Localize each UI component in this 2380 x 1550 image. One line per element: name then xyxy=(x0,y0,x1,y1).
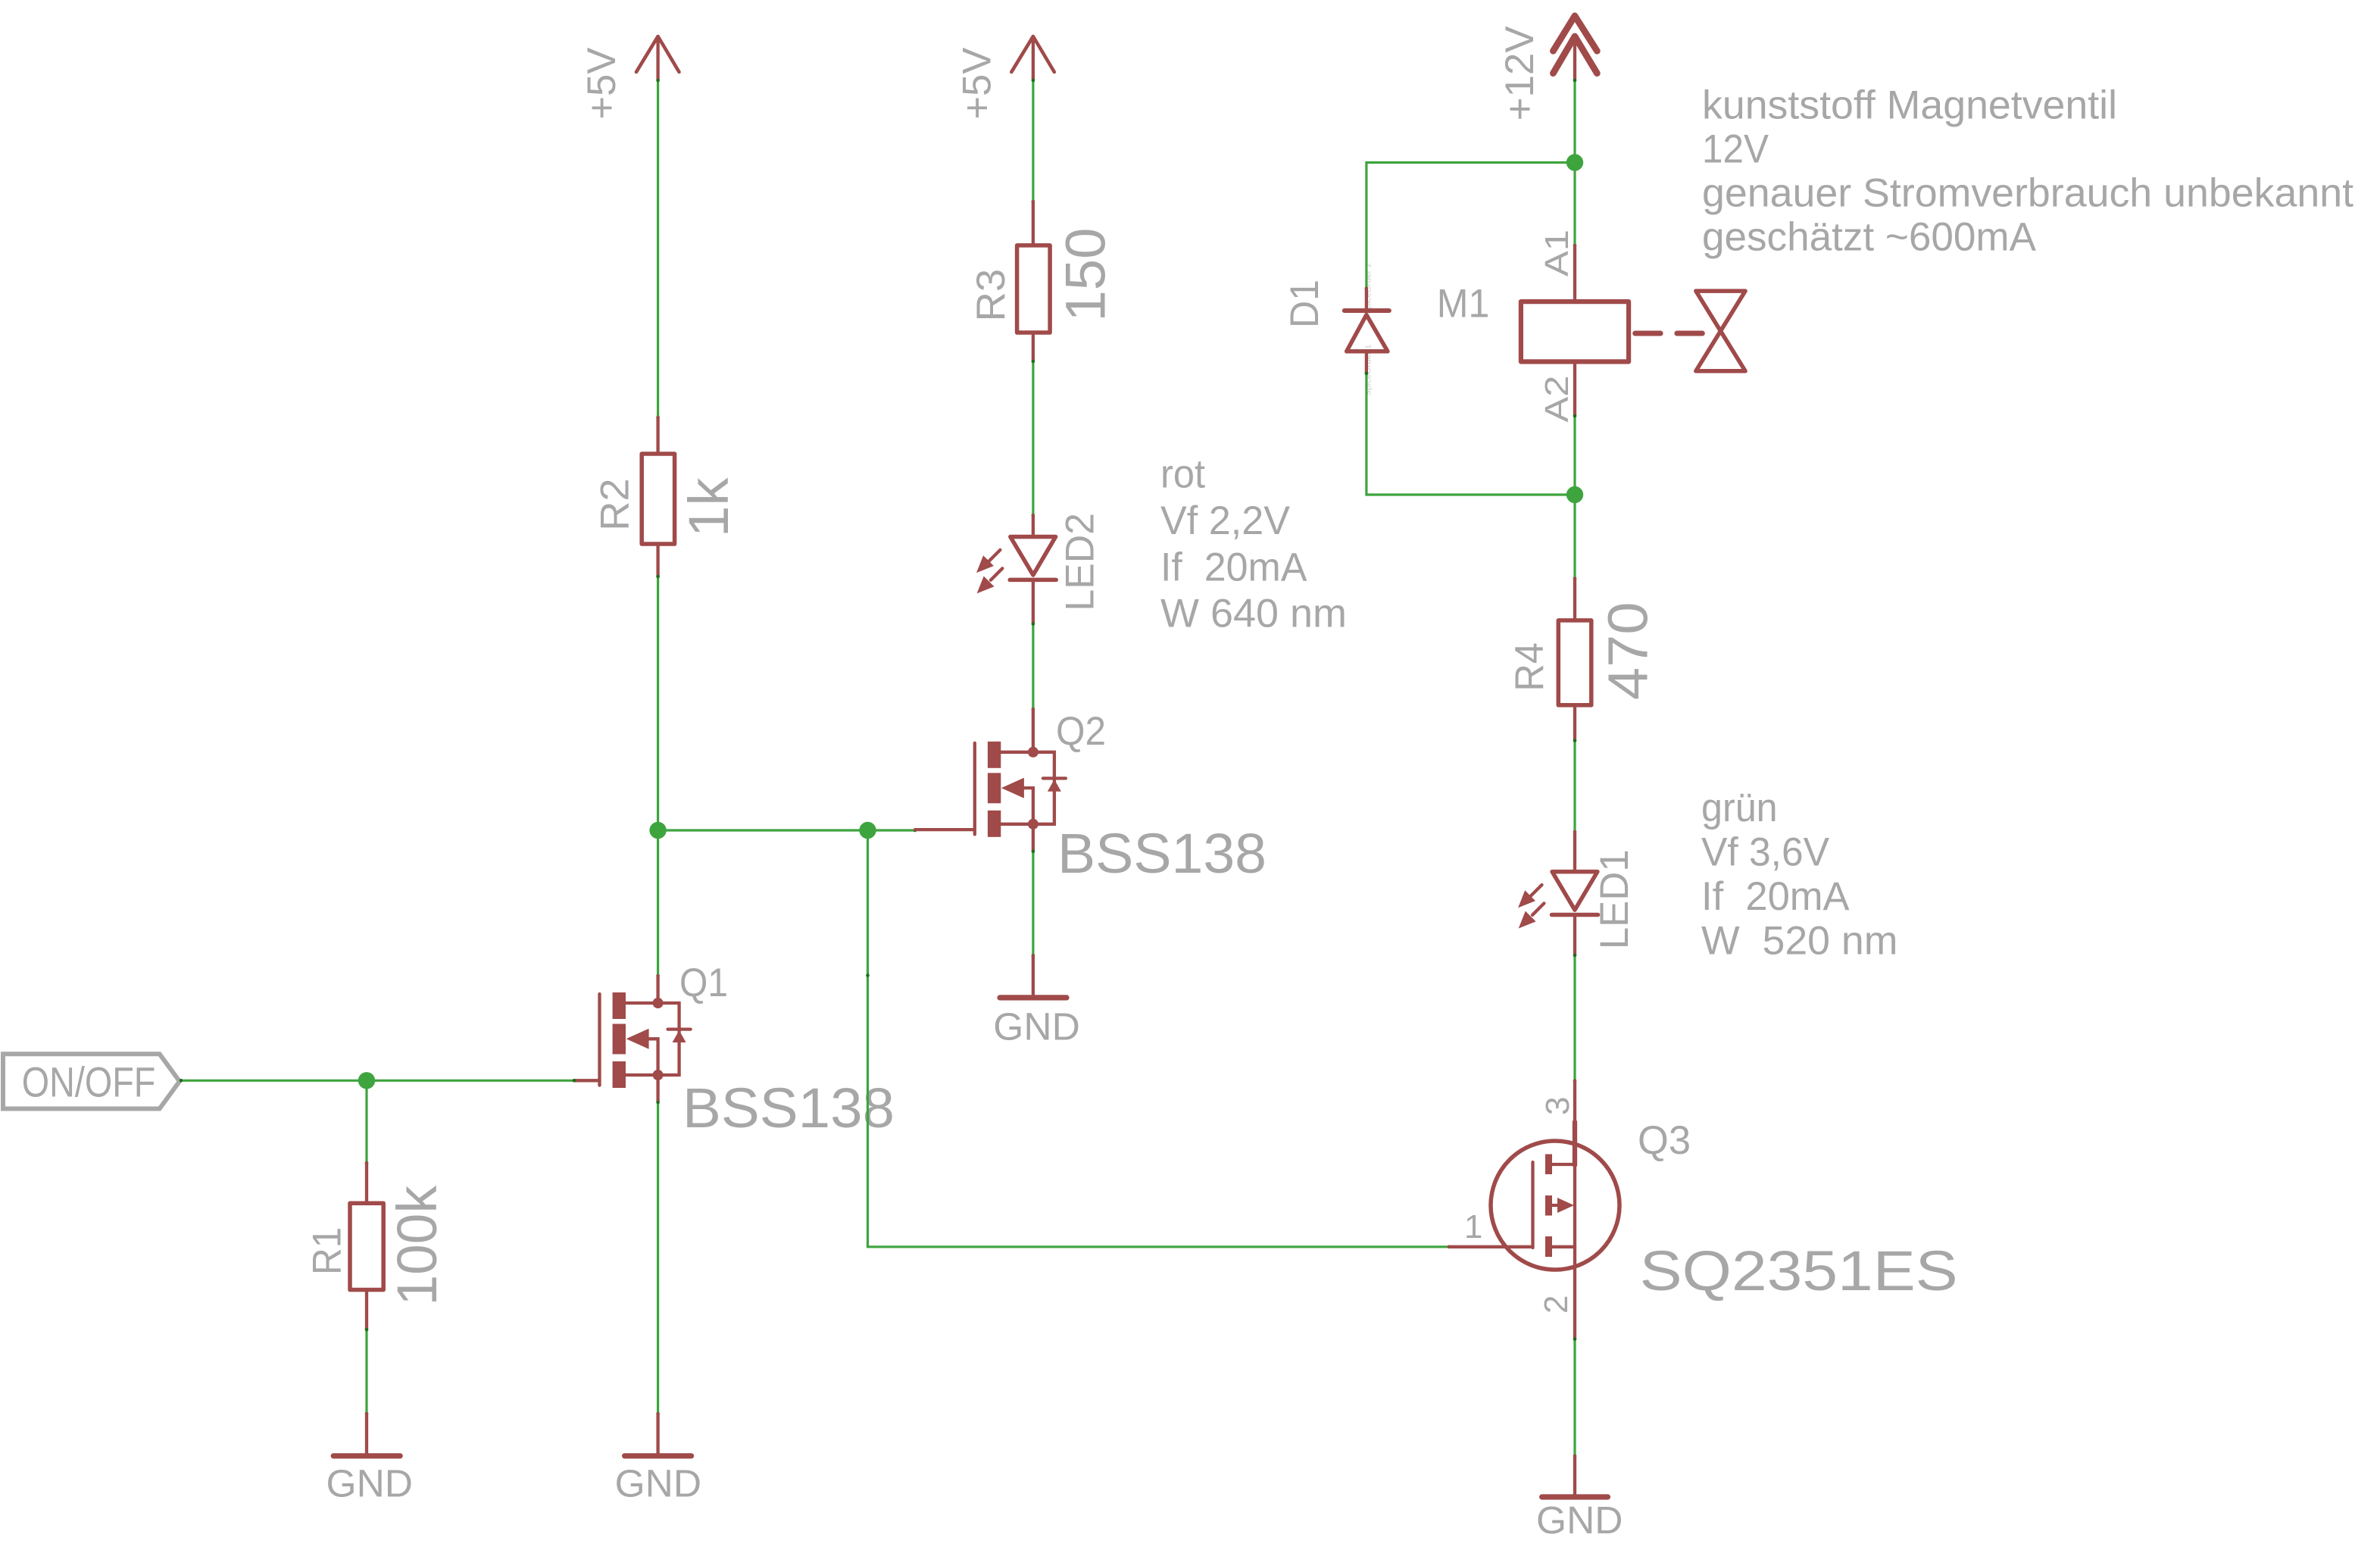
transistor Q3 SQ2351ES xyxy=(1449,1081,1958,1339)
wire Q1 source to GND xyxy=(656,1101,660,1416)
node E junction xyxy=(1566,486,1583,503)
ground GND (under Q3) xyxy=(1536,1456,1623,1542)
wire Q3 source to GND xyxy=(1573,1337,1577,1458)
svg-text:If 20mA: If 20mA xyxy=(1160,545,1307,589)
wire R2 to node A xyxy=(656,575,660,830)
pin labels SpiceOrder D1 xyxy=(1364,263,1373,396)
wire node B to Q2 gate xyxy=(868,829,917,833)
note kunststoff Magnetventil text xyxy=(1702,83,2353,260)
wire R1 to GND xyxy=(365,1328,369,1416)
resistor R2 1k xyxy=(593,417,740,577)
transistor Q2 BSS138 xyxy=(915,709,1267,885)
wire node A to node B xyxy=(658,829,868,831)
resistor R4 470 xyxy=(1507,579,1660,741)
svg-text:ON/OFF: ON/OFF xyxy=(22,1059,156,1106)
node A junction xyxy=(649,822,666,839)
ground GND (under Q1) xyxy=(615,1414,702,1505)
svg-text:470: 470 xyxy=(1597,602,1660,701)
svg-text:A1: A1 xyxy=(1538,230,1576,277)
svg-text:Q2: Q2 xyxy=(1056,709,1106,754)
svg-text:+5V: +5V xyxy=(954,47,999,120)
wire node C to R1 xyxy=(365,1080,369,1164)
relay coil M1 (Magnetventil) xyxy=(1437,230,1629,423)
svg-text:1k: 1k xyxy=(677,477,740,537)
connector ON/OFF input flag xyxy=(3,1054,180,1108)
wire Q2 source to GND xyxy=(1032,850,1035,958)
wire R4 to LED1 xyxy=(1573,739,1577,833)
svg-text:BSS138: BSS138 xyxy=(1057,822,1267,885)
supply +5V (left, net to R2) xyxy=(579,36,679,120)
svg-text:A2: A2 xyxy=(1538,376,1576,423)
wire LED1 to Q3 drain xyxy=(1573,954,1577,1083)
supply +12V xyxy=(1498,16,1597,121)
LED LED1 xyxy=(1518,832,1637,955)
svg-text:100k: 100k xyxy=(386,1185,448,1305)
wire node D to M1 pin A1 xyxy=(1573,163,1577,248)
svg-text:BSS138: BSS138 xyxy=(682,1077,895,1139)
svg-text:If 20mA: If 20mA xyxy=(1701,874,1850,919)
wire node A to Q1 drain xyxy=(656,830,660,977)
wire D1 anode to node E xyxy=(1365,372,1575,495)
note rot LED2 data xyxy=(1160,452,1347,636)
wire +12V to node D xyxy=(1573,79,1577,163)
svg-text:grün: grün xyxy=(1701,786,1778,830)
svg-text:GND: GND xyxy=(1536,1498,1623,1542)
wire node B to Q3 gate xyxy=(866,830,1451,1248)
svg-text:R2: R2 xyxy=(593,478,638,530)
svg-text:2: 2 xyxy=(1538,1295,1575,1314)
svg-text:+5V: +5V xyxy=(579,47,624,120)
wire node D to D1 cathode xyxy=(1365,163,1575,290)
transistor Q1 BSS138 xyxy=(574,961,895,1139)
wire R3 to LED2 xyxy=(1032,360,1035,517)
wire node E to R4 xyxy=(1573,495,1577,580)
svg-text:W 520 nm: W 520 nm xyxy=(1701,919,1898,964)
svg-text:GND: GND xyxy=(326,1462,414,1505)
supply +5V (middle, net to R3) xyxy=(954,36,1054,120)
svg-text:kunststoff Magnetventil: kunststoff Magnetventil xyxy=(1702,83,2117,128)
svg-text:R4: R4 xyxy=(1507,642,1552,692)
resistor R3 150 xyxy=(969,202,1117,361)
svg-text:Q1: Q1 xyxy=(679,961,728,1005)
node C junction (ON/OFF / R1) xyxy=(358,1072,375,1089)
wire +5V to R2 xyxy=(656,79,660,420)
ground GND (under R1) xyxy=(326,1414,414,1505)
svg-text:1: 1 xyxy=(1464,1208,1482,1245)
svg-text:GND: GND xyxy=(615,1462,702,1505)
svg-text:geschätzt ~600mA: geschätzt ~600mA xyxy=(1702,215,2037,260)
resistor R1 100k xyxy=(305,1163,448,1330)
svg-text:Vf 3,6V: Vf 3,6V xyxy=(1701,830,1830,874)
svg-text:D1: D1 xyxy=(1282,280,1327,328)
LED LED2 xyxy=(976,513,1103,624)
svg-text:R1: R1 xyxy=(305,1227,350,1275)
svg-text:3: 3 xyxy=(1539,1097,1576,1115)
wire ON/OFF to Q1 gate xyxy=(180,1079,576,1083)
svg-text:W 640 nm: W 640 nm xyxy=(1160,592,1347,636)
node B junction xyxy=(859,822,876,839)
svg-text:M1: M1 xyxy=(1437,281,1490,326)
svg-text:SQ2351ES: SQ2351ES xyxy=(1640,1239,1958,1302)
valve symbol (dashed link + bowtie) xyxy=(1635,291,1745,371)
note gruen LED1 data xyxy=(1701,786,1898,964)
wire LED2 to Q2 drain xyxy=(1032,622,1035,711)
ground GND (under Q2) xyxy=(993,955,1080,1048)
svg-text:Vf 2,2V: Vf 2,2V xyxy=(1160,498,1291,543)
svg-text:+12V: +12V xyxy=(1498,26,1542,121)
svg-text:GND: GND xyxy=(993,1005,1080,1048)
svg-text:12V: 12V xyxy=(1702,127,1769,172)
node D junction xyxy=(1566,154,1583,170)
svg-text:LED1: LED1 xyxy=(1592,849,1637,949)
svg-text:genauer Stromverbrauch unbekan: genauer Stromverbrauch unbekannt xyxy=(1702,171,2353,216)
wire M1 pin A2 to node E xyxy=(1573,414,1577,495)
wire +5V to R3 xyxy=(1032,79,1035,204)
svg-text:LED2: LED2 xyxy=(1058,513,1103,611)
diode D1 (flyback) xyxy=(1282,280,1389,373)
svg-text:Q3: Q3 xyxy=(1638,1118,1691,1163)
svg-text:rot: rot xyxy=(1160,452,1205,497)
svg-text:150: 150 xyxy=(1054,228,1117,322)
svg-text:R3: R3 xyxy=(969,269,1014,322)
